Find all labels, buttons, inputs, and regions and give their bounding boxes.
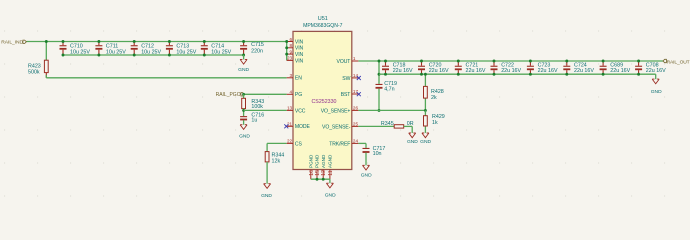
svg-text:22: 22 — [287, 139, 293, 144]
svg-text:3: 3 — [290, 73, 293, 78]
svg-text:VIN: VIN — [295, 39, 304, 45]
svg-text:1k: 1k — [432, 120, 438, 126]
svg-text:PG: PG — [295, 92, 302, 98]
svg-text:26: 26 — [353, 106, 359, 111]
svg-text:1: 1 — [353, 56, 356, 61]
svg-text:22u 16V: 22u 16V — [538, 68, 558, 74]
svg-text:10n: 10n — [373, 151, 382, 157]
svg-text:GND: GND — [407, 139, 418, 145]
svg-text:11: 11 — [328, 170, 334, 175]
svg-text:1u: 1u — [251, 117, 257, 123]
svg-text:C711: C711 — [106, 43, 118, 49]
svg-text:8: 8 — [290, 43, 293, 48]
svg-text:GND: GND — [325, 192, 336, 198]
svg-text:U51: U51 — [318, 16, 328, 22]
svg-text:MPM3683GQN-7: MPM3683GQN-7 — [303, 23, 343, 29]
svg-text:VIN: VIN — [295, 52, 304, 58]
svg-text:AGND: AGND — [321, 154, 326, 168]
svg-text:PGND: PGND — [315, 154, 320, 168]
svg-text:220n: 220n — [251, 48, 263, 54]
svg-text:22u 16V: 22u 16V — [574, 68, 594, 74]
svg-text:C714: C714 — [211, 43, 224, 49]
svg-text:GND: GND — [261, 193, 272, 199]
svg-text:22u 16V: 22u 16V — [646, 68, 666, 74]
svg-text:6: 6 — [290, 37, 293, 42]
svg-text:RAIL_IND: RAIL_IND — [1, 39, 23, 45]
svg-text:C715: C715 — [251, 42, 264, 48]
svg-text:MODE: MODE — [295, 124, 311, 130]
svg-text:GND: GND — [239, 133, 250, 139]
svg-text:R345: R345 — [381, 121, 394, 127]
svg-text:CS252330: CS252330 — [311, 99, 336, 105]
svg-text:10u 25V: 10u 25V — [176, 50, 196, 56]
svg-text:VOUT: VOUT — [337, 59, 351, 65]
svg-text:GND: GND — [651, 89, 662, 95]
svg-text:10u 25V: 10u 25V — [211, 50, 231, 56]
svg-text:RAIL_OUT: RAIL_OUT — [667, 59, 690, 65]
svg-text:10u 25V: 10u 25V — [70, 50, 90, 56]
svg-text:23: 23 — [287, 56, 293, 61]
svg-text:PGND: PGND — [309, 154, 314, 168]
svg-text:EN: EN — [295, 76, 302, 82]
svg-text:2k: 2k — [431, 95, 437, 101]
svg-text:R344: R344 — [272, 153, 285, 159]
svg-text:CS: CS — [295, 141, 303, 147]
svg-text:C712: C712 — [141, 43, 154, 49]
svg-text:22u 16V: 22u 16V — [466, 68, 486, 74]
svg-text:C710: C710 — [70, 43, 83, 49]
svg-text:22u 16V: 22u 16V — [501, 68, 521, 74]
svg-text:24: 24 — [353, 139, 359, 144]
svg-text:4,7n: 4,7n — [384, 86, 394, 92]
svg-text:VIN: VIN — [295, 46, 304, 52]
svg-text:GND: GND — [420, 139, 431, 145]
svg-text:VCC: VCC — [295, 108, 306, 114]
svg-text:RAIL_PGO: RAIL_PGO — [216, 92, 241, 98]
svg-text:C713: C713 — [176, 43, 189, 49]
svg-text:BST: BST — [341, 92, 351, 98]
svg-text:15: 15 — [315, 170, 321, 176]
svg-text:GND: GND — [361, 172, 372, 178]
svg-text:9: 9 — [290, 49, 293, 54]
svg-text:22u 16V: 22u 16V — [393, 68, 413, 74]
svg-text:10u 25V: 10u 25V — [106, 50, 126, 56]
svg-text:500k: 500k — [28, 69, 40, 75]
svg-text:22u 16V: 22u 16V — [610, 68, 630, 74]
svg-text:12: 12 — [321, 170, 327, 176]
svg-text:TRK/REF: TRK/REF — [329, 141, 350, 147]
svg-text:VO_SENSE+: VO_SENSE+ — [321, 108, 351, 114]
svg-text:21: 21 — [287, 122, 293, 127]
svg-text:AGND: AGND — [328, 154, 333, 168]
svg-text:VIN: VIN — [295, 58, 304, 64]
svg-text:GND: GND — [238, 67, 249, 73]
svg-text:10u 25V: 10u 25V — [141, 50, 161, 56]
svg-text:VO_SENSE-: VO_SENSE- — [322, 124, 351, 130]
svg-text:16: 16 — [309, 170, 315, 176]
svg-text:4: 4 — [290, 90, 293, 95]
svg-text:13: 13 — [287, 106, 293, 111]
svg-text:25: 25 — [353, 122, 359, 127]
svg-text:100k: 100k — [251, 104, 263, 110]
svg-text:22u 16V: 22u 16V — [429, 68, 449, 74]
svg-text:SW: SW — [342, 76, 350, 82]
svg-text:12k: 12k — [272, 159, 281, 165]
svg-text:0R: 0R — [407, 121, 414, 127]
